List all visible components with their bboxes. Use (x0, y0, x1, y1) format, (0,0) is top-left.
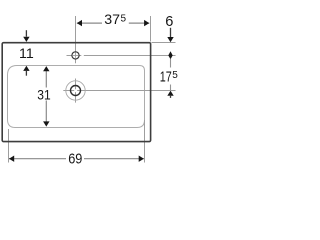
diamond double arrow at tap line (168, 51, 172, 59)
svg-text:5: 5 (172, 70, 178, 81)
dim 31 line upper (45, 69, 47, 88)
tap centerline horizontal (67, 55, 82, 57)
dim 17.5 up arrow (167, 91, 173, 96)
drain inner circle (71, 86, 81, 96)
dim 11 upper arrow (25, 30, 27, 36)
dim 6 down arrow (167, 37, 173, 42)
dim 69 left arrow (9, 156, 14, 162)
drain centerline vertical (75, 79, 77, 90)
svg-text:5: 5 (121, 14, 127, 25)
extension line 37.5 right (150, 16, 152, 42)
drain outer circle (66, 81, 85, 100)
svg-text:37: 37 (104, 12, 120, 28)
svg-text:17: 17 (160, 70, 172, 86)
inner bowl (8, 66, 145, 128)
dim 37.5 left arrow (77, 20, 82, 26)
svg-text:6: 6 (165, 14, 173, 30)
basin outer rim stroke (2, 43, 150, 142)
dim 31 up arrow (43, 66, 49, 71)
top edge extension to right (152, 42, 176, 44)
dim 31 line lower (45, 101, 47, 124)
dim 31 down arrow (43, 121, 49, 126)
tap centerline vertical (75, 16, 77, 63)
extension line 69 right (144, 120, 146, 163)
dim 37.5 right arrow (144, 20, 149, 26)
basin outer rim fill (2, 43, 150, 142)
tap hole (72, 52, 79, 59)
dim 11 lower arrow (23, 66, 29, 71)
extension line 69 left (8, 129, 10, 163)
drain centerline horizontal (63, 90, 74, 92)
dim 17.5 line upper (170, 59, 172, 68)
dim 69 right arrow (139, 156, 144, 162)
svg-text:69: 69 (68, 151, 82, 167)
dim 6 arrow tail (170, 28, 172, 37)
dim 37.5 line (77, 22, 102, 24)
dim 69 line (9, 158, 66, 160)
dim 17.5 line lower (170, 85, 172, 91)
tap center dashes (73, 55, 78, 57)
svg-text:11: 11 (19, 46, 34, 62)
svg-text:31: 31 (37, 87, 50, 103)
